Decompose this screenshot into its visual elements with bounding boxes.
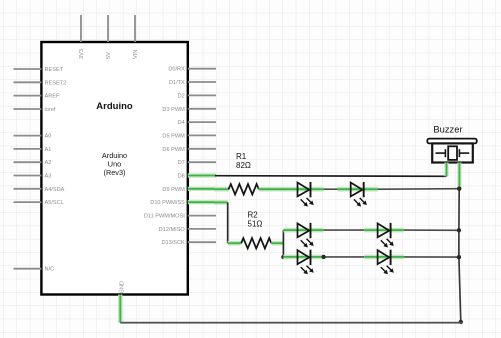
pin N/C — [14, 267, 55, 273]
Arduino U1 body — [41, 42, 187, 295]
wire row3 LED1 cathode lead — [311, 255, 324, 260]
pin D10 PWM/SS (connected) — [150, 200, 216, 206]
svg-text:82Ω: 82Ω — [236, 161, 251, 170]
pin GND (connected) — [120, 281, 126, 308]
pin D11 PWM/MOSI — [144, 214, 216, 220]
svg-text:VIN: VIN — [133, 50, 139, 59]
wire row2 mid segment — [324, 229, 365, 231]
pin D13/SCK — [161, 240, 216, 246]
pin RESET — [14, 67, 64, 73]
label R2 51ohm — [248, 211, 263, 229]
svg-text:D7: D7 — [178, 160, 185, 166]
svg-text:R2: R2 — [248, 211, 259, 220]
pin D0/RX — [168, 67, 216, 73]
pin A1 — [14, 147, 52, 153]
wire row3 LED2 cathode lead — [391, 255, 405, 260]
pin A4/SDA — [14, 187, 65, 193]
LED D3 row2 first — [298, 223, 314, 248]
pin D7 — [178, 160, 216, 166]
svg-text:(Rev3): (Rev3) — [104, 168, 126, 177]
wire row2 LED2 anode (through LED) — [364, 228, 390, 233]
pin D6 PWM — [162, 147, 216, 153]
svg-text:D11 PWM/MOSI: D11 PWM/MOSI — [144, 214, 185, 220]
svg-text:D3 PWM: D3 PWM — [162, 107, 185, 113]
svg-text:D13/SCK: D13/SCK — [161, 240, 185, 246]
svg-text:RESET: RESET — [45, 67, 64, 73]
svg-text:3V3: 3V3 — [79, 49, 85, 59]
label R1 82ohm — [236, 152, 251, 170]
buzzer right pin — [457, 163, 461, 189]
wire row2 LED2 cathode lead — [391, 228, 405, 233]
junction dot bus row2 — [457, 228, 461, 232]
pin D1/TX — [169, 80, 216, 86]
wire R2 out — [271, 241, 283, 246]
buzzer left pin — [444, 163, 448, 177]
wire GND vertical — [118, 296, 123, 323]
svg-text:GND: GND — [120, 281, 126, 293]
wire row1 LED2 anode lead (through LED) — [337, 187, 363, 192]
svg-text:D2: D2 — [178, 93, 185, 99]
wire row2 LED1 cathode lead — [311, 228, 324, 233]
wire row3 mid segment — [324, 256, 365, 258]
wire row1 to bus — [378, 188, 459, 191]
wire D10 horizontal — [214, 200, 228, 205]
pin AREF — [14, 94, 61, 100]
pin 3V3 — [79, 15, 85, 59]
svg-text:RESET2: RESET2 — [45, 80, 67, 86]
svg-text:5V: 5V — [106, 52, 112, 59]
svg-text:AREF: AREF — [45, 94, 61, 100]
svg-text:D4: D4 — [178, 120, 185, 126]
wire row1 LED1 cathode lead — [311, 187, 324, 192]
wire D10 vertical down — [227, 202, 229, 243]
wire row3 LED1 anode (through LED) — [283, 255, 310, 260]
svg-text:A4/SDA: A4/SDA — [45, 187, 65, 193]
svg-text:D1/TX: D1/TX — [169, 80, 185, 86]
LED D4 row2 second — [378, 223, 394, 248]
svg-text:A3: A3 — [45, 174, 52, 180]
svg-text:D0/RX: D0/RX — [168, 67, 185, 73]
wire split vertical — [282, 230, 284, 257]
LED D6 row3 second — [378, 250, 394, 275]
wire D8 to buzzer left pin — [215, 175, 447, 178]
label Arduino Uno (Rev3) — [102, 151, 127, 177]
wire D9 to R1 — [214, 187, 229, 192]
LED D2 row1 second — [351, 182, 367, 207]
wire into R2 — [228, 241, 242, 246]
pin A3 — [14, 174, 52, 180]
svg-text:A5/SCL: A5/SCL — [45, 200, 64, 206]
svg-text:D8: D8 — [178, 174, 185, 180]
wire row1 mid segment — [324, 188, 338, 190]
svg-text:D5 PWM: D5 PWM — [162, 133, 185, 139]
svg-text:ioref: ioref — [45, 107, 56, 113]
wire row3 LED2 anode (through LED) — [364, 255, 390, 260]
junction dot row3 left — [281, 255, 285, 259]
pin A2 — [14, 160, 52, 166]
pin D3 PWM — [162, 107, 216, 113]
svg-text:A0: A0 — [45, 134, 52, 140]
svg-text:Arduino: Arduino — [96, 101, 133, 112]
pin A0 — [14, 134, 52, 140]
LED D1 row1 first — [298, 182, 314, 207]
pin D12/MISO — [159, 227, 216, 233]
wire R1 to LED1 (through LED) — [259, 187, 311, 192]
svg-text:D9 PWM: D9 PWM — [162, 187, 185, 193]
junction dot bus row3 — [457, 255, 461, 259]
pin D5 PWM — [162, 133, 216, 139]
junction dot bus bottom — [459, 320, 463, 324]
junction dot row3 after LED1 — [321, 255, 325, 259]
LED D5 row3 first — [298, 250, 314, 275]
pin VIN — [133, 15, 139, 59]
wire GND bottom horizontal — [120, 321, 461, 324]
junction dot bus row1 — [457, 187, 461, 191]
pin RESET2 — [14, 80, 67, 86]
svg-text:51Ω: 51Ω — [248, 219, 263, 228]
buzzer LS1 — [427, 124, 477, 163]
label Arduino title — [96, 101, 133, 112]
wire bus vertical — [459, 189, 461, 322]
svg-text:D6 PWM: D6 PWM — [162, 147, 185, 153]
svg-text:N/C: N/C — [45, 267, 55, 273]
resistor R1 — [229, 184, 259, 194]
pin D2 — [178, 93, 216, 99]
svg-text:A2: A2 — [45, 160, 52, 166]
svg-text:D10 PWM/SS: D10 PWM/SS — [150, 200, 185, 206]
pin 5V — [106, 15, 112, 59]
wire row2 to bus — [404, 229, 459, 231]
resistor R2 — [241, 238, 271, 248]
svg-text:Buzzer: Buzzer — [433, 124, 462, 135]
pin D9 PWM (connected) — [162, 187, 216, 193]
wire row2 LED1 anode (through LED) — [283, 228, 310, 233]
wire row1 LED2 cathode lead — [364, 187, 378, 192]
wire row3 to bus — [404, 256, 459, 258]
pin ioref — [14, 107, 56, 113]
svg-text:A1: A1 — [45, 147, 52, 153]
pin A5/SCL — [14, 200, 64, 206]
pin D4 — [178, 120, 216, 126]
svg-text:R1: R1 — [236, 152, 247, 161]
pin D8 (connected) — [178, 174, 216, 180]
svg-text:D12/MISO: D12/MISO — [159, 227, 186, 233]
